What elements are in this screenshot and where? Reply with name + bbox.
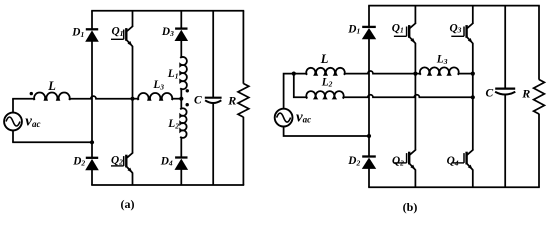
wire: Q2 emitter to bottom rail (a) — [132, 173, 134, 186]
wire: Q2 collector from midpoint (a) — [132, 99, 134, 154]
wire: mid wire from L to Q leg, hop over D leg (a) — [70, 96, 132, 99]
wire: Q4 emitter to bottom rail (b) — [472, 170, 474, 188]
diode D1 (a) — [86, 28, 98, 30]
inductor L2 (a) — [180, 108, 186, 138]
wire: L2 to Q3/Q4 leg, hops over D leg and Q1/Q2 leg (b) — [344, 95, 473, 98]
svg-text:R: R — [227, 94, 236, 108]
wire: return wire to D1/D2 midpoint (a) — [12, 141, 92, 143]
svg-text:L: L — [320, 52, 329, 66]
junction dot where L2 joins Q3/Q4 leg (b) — [471, 95, 475, 99]
inductor L (b) — [306, 68, 345, 75]
coupling dot of L (a) — [30, 92, 33, 95]
inductor L3 (b) — [420, 67, 459, 74]
wire: L1 to center node (a) — [180, 89, 182, 99]
resistor R (b) — [534, 80, 545, 115]
wire: D leg top (b) — [368, 6, 370, 28]
wire: circuit (a) top rail — [91, 10, 244, 12]
wire: capacitor C bottom lead (b) — [504, 94, 506, 187]
svg-text:C: C — [486, 88, 494, 100]
transistor Q1 (a) — [126, 26, 132, 32]
wire: source bottom return to D1/D2 midpoint (b) — [284, 126, 369, 136]
junction dot at D1/D2 midpoint (b) — [367, 134, 371, 138]
wire: Q1/Q2 midpoint to L3 (b) — [415, 73, 420, 75]
inductor L2 (b) — [306, 91, 344, 98]
wire: D4 to bottom rail (a) — [180, 169, 182, 185]
junction dot at D1/D2 midpoint (a) — [90, 140, 94, 144]
ac source v_ac (b) — [275, 109, 293, 127]
wire: circuit (a) bottom rail — [91, 184, 244, 186]
diode D2 (a) — [86, 157, 98, 159]
transistor Q2 (a) — [126, 153, 132, 159]
junction dot at Q1/Q2 midpoint (a) — [130, 97, 134, 101]
wire: source top to inductor L (a) — [12, 98, 33, 100]
junction dot: center node of L1/L2/L3 (a) — [179, 97, 183, 101]
wire: Q2 emitter to bottom rail (b) — [414, 170, 416, 188]
wire: source top lead (a) — [12, 99, 14, 114]
wire: capacitor C top lead (a) — [212, 11, 214, 98]
transistor Q1 (b) — [409, 23, 415, 29]
wire: D3 to L1 (a) — [180, 41, 182, 58]
diode D1 (b) — [362, 26, 376, 28]
wire: Q1 emitter to midpoint (a) — [132, 46, 134, 99]
wire: D leg bottom (a) — [91, 170, 93, 185]
wire: resistor R top lead (b) — [538, 6, 540, 80]
wire: capacitor C top lead (b) — [504, 6, 506, 89]
wire: L2 to D4 (a) — [180, 138, 182, 158]
svg-text:L: L — [47, 79, 56, 93]
wire: Q3/Q4 leg between midpoints (b) — [472, 74, 474, 151]
svg-text:(b): (b) — [403, 200, 418, 214]
wire: D leg top (a) — [91, 11, 93, 30]
wire: D leg bottom (b) — [368, 168, 370, 187]
wire: circuit (b) bottom rail — [368, 186, 540, 188]
inductor L1 (a) — [180, 57, 187, 89]
wire: Q1 collector from top rail (a) — [132, 11, 134, 27]
wire: resistor R bottom lead (a) — [242, 117, 244, 185]
wire: center node to L2 (a) — [180, 99, 182, 109]
transistor Q2 (b) — [409, 150, 415, 156]
wire: Q2 collector from midpoint (b) — [414, 74, 416, 151]
svg-text:R: R — [521, 86, 530, 100]
resistor R (a) — [238, 84, 249, 118]
wire: L3 to center node (a) — [173, 98, 181, 100]
wire: Q3 collector from top rail (b) — [472, 6, 474, 24]
wire: L3 to Q3/Q4 midpoint (b) — [459, 73, 473, 75]
wire: split node down to L2 branch (b) — [294, 74, 306, 97]
transistor Q3 (b) — [467, 23, 473, 29]
transistor Q4 (b) — [467, 150, 473, 156]
svg-text:(a): (a) — [121, 197, 135, 211]
wire: capacitor C bottom lead (a) — [212, 103, 214, 185]
wire: resistor R top lead (a) — [242, 11, 244, 84]
svg-text:C: C — [194, 94, 202, 106]
wire: source top lead up to L/L2 split (b) — [284, 74, 306, 110]
inductor L3 (a) — [138, 93, 173, 100]
wire: Q1 emitter to midpoint (b) — [414, 43, 416, 74]
diode D4 (a) — [175, 156, 187, 158]
wire: Q1 collector from top rail (b) — [414, 6, 416, 24]
diode D3 (a) — [175, 27, 187, 29]
junction dot at Q1/Q2 midpoint (b) — [413, 72, 417, 76]
capacitor C (b) — [495, 87, 515, 89]
wire: L to Q1/Q2 midpoint, hop over D leg (b) — [345, 71, 415, 74]
inductor L (a) — [34, 93, 71, 100]
wire: resistor R bottom lead (b) — [538, 114, 540, 188]
junction dot at Q3/Q4 midpoint (b) — [471, 72, 475, 76]
ac source v_ac (a) — [4, 113, 22, 131]
wire: circuit (b) top rail — [368, 5, 540, 7]
capacitor C (a) — [205, 97, 222, 99]
wire: D leg middle (b) — [368, 39, 370, 157]
coupling dot of L1 (a) — [186, 89, 189, 92]
wire: Q3 emitter to midpoint (b) — [472, 43, 474, 74]
wire: D3 lead from top rail (a) — [180, 11, 182, 29]
coupling dot of L2 (a) — [186, 103, 189, 106]
diode D2 (b) — [362, 155, 376, 157]
junction dot: L/L2 split node (b) — [292, 72, 296, 76]
wire: D leg middle (a) — [91, 41, 93, 158]
wire: source bottom lead (a) — [12, 130, 14, 143]
wire: Q1/Q2 midpoint to L3 (a) — [133, 98, 139, 100]
